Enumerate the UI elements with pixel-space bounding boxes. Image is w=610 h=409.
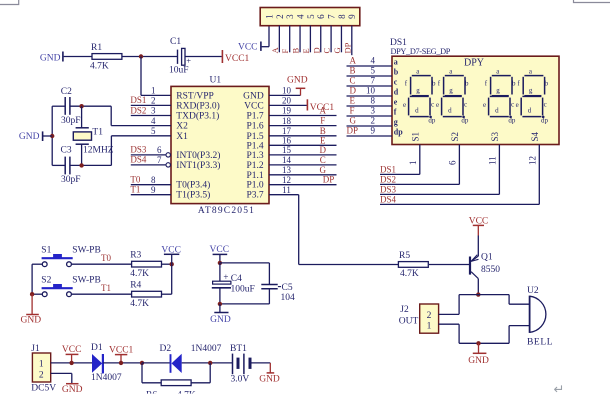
label R4 — [130, 281, 141, 291]
pin name T0(P3.4) (U1) — [176, 180, 210, 191]
value 10uF (C1) — [169, 66, 189, 76]
svg-text:2: 2 — [151, 96, 156, 106]
svg-text:P1.2: P1.2 — [247, 161, 264, 171]
wire J1 pin 1 to D1 — [51, 362, 92, 364]
svg-text:G: G — [320, 165, 327, 175]
pin number 5 (display b) — [371, 66, 376, 76]
svg-text:B: B — [291, 48, 301, 54]
pin number 4 (display a) — [371, 56, 376, 66]
value SW-PB (S1) — [72, 246, 101, 256]
pin number 12 (display S4) — [527, 156, 537, 165]
svg-text:1: 1 — [39, 359, 44, 369]
value 1N4007 (D1) — [91, 373, 122, 383]
wire rail to C3 — [52, 164, 65, 166]
resistor R4 — [132, 291, 162, 297]
svg-text:Q1: Q1 — [481, 253, 493, 263]
wire D2 to BT1 — [182, 362, 233, 364]
svg-text:GND: GND — [287, 76, 308, 86]
net label F (header pin 3) — [280, 49, 290, 54]
net label DS3 (U1 pin 6) — [130, 145, 147, 155]
pin name P1.5 (U1) — [247, 132, 264, 142]
wire display S4 down — [538, 145, 540, 205]
junction S2 rail — [30, 292, 34, 296]
junction GND tap — [50, 134, 54, 138]
svg-text:d: d — [495, 107, 499, 115]
svg-text:5: 5 — [371, 66, 376, 76]
svg-text:100uF: 100uF — [231, 285, 255, 295]
wire U1 to net F — [269, 125, 337, 127]
connector J2 — [400, 304, 438, 333]
svg-text:104: 104 — [281, 293, 296, 303]
svg-text:8: 8 — [371, 96, 376, 106]
svg-text:P1.6: P1.6 — [247, 122, 264, 132]
svg-text:c: c — [544, 100, 547, 108]
resistor R5 — [398, 262, 428, 268]
pin name S1 (inside display) — [410, 132, 420, 142]
svg-text:DS1: DS1 — [380, 165, 396, 175]
junction crystal bottom — [79, 163, 83, 167]
svg-text:8: 8 — [151, 175, 156, 185]
wire U1 pin 10 to GND — [269, 94, 301, 96]
wire DS3 to U1 pin 6 — [131, 154, 166, 156]
svg-text:AT89C2051: AT89C2051 — [198, 206, 255, 216]
svg-text:6: 6 — [157, 145, 162, 155]
svg-text:f: f — [394, 107, 397, 116]
pin name P1.3 (U1) — [247, 151, 264, 161]
svg-text:J2: J2 — [400, 305, 409, 315]
svg-text:F: F — [350, 106, 355, 116]
svg-text:b: b — [512, 80, 516, 88]
junction VCC1 — [119, 361, 123, 365]
net label T0 (U1 pin 8) — [130, 175, 140, 185]
wire U1 pin 20 to VCC1 — [269, 104, 307, 106]
svg-text:DS4: DS4 — [130, 155, 147, 165]
svg-text:2: 2 — [427, 311, 432, 321]
svg-text:b: b — [394, 67, 399, 76]
svg-text:SW-PB: SW-PB — [72, 276, 101, 286]
svg-text:4: 4 — [371, 56, 376, 66]
ground port GND (J1) — [62, 384, 83, 396]
ground port GND (U1 pin 10) — [287, 76, 308, 96]
wire display pin b — [347, 75, 393, 77]
pin number 18 (U1) — [282, 116, 292, 126]
power port VCC (header) — [238, 42, 261, 53]
pin name INT1(P3.3) (U1) — [176, 160, 220, 171]
resistor R6 (bypass) — [161, 380, 191, 386]
svg-text:18: 18 — [282, 116, 292, 126]
pin number 15 (U1) — [282, 145, 292, 155]
net label F (display) — [350, 106, 355, 116]
svg-text:20: 20 — [282, 96, 292, 106]
pin name S2 (inside display) — [450, 132, 460, 142]
svg-text:GND: GND — [21, 315, 42, 325]
net label DS4 (U1 pin 7) — [130, 155, 147, 165]
net label A (U1 side) — [320, 106, 327, 116]
svg-text:5: 5 — [151, 126, 156, 136]
svg-text:10: 10 — [366, 86, 376, 96]
wire to U1 pin 1 — [141, 94, 171, 96]
pin number 7 (U1) — [157, 155, 162, 165]
power port VCC (J1) — [62, 345, 82, 363]
ground port GND (C4) — [210, 304, 231, 325]
svg-text:TXD(P3.1): TXD(P3.1) — [176, 111, 219, 122]
wire bypass to R6 — [142, 382, 161, 384]
svg-text:OUT: OUT — [399, 317, 419, 327]
wire X2 bend — [110, 106, 112, 125]
svg-text:RXD(P3.0): RXD(P3.0) — [176, 100, 220, 111]
wire J1 pin 2 down — [71, 373, 73, 383]
svg-text:b: b — [465, 80, 469, 88]
wire to D2 — [142, 362, 170, 364]
wire R5 to Q1 base — [429, 264, 469, 266]
svg-text:7: 7 — [371, 76, 376, 86]
svg-text:7: 7 — [327, 14, 337, 19]
capacitor C1 — [178, 48, 192, 65]
pin number 14 (U1) — [282, 155, 292, 165]
svg-text:↵: ↵ — [554, 382, 565, 397]
wire X1 bend — [110, 136, 112, 166]
svg-text:P1.7: P1.7 — [247, 112, 264, 122]
svg-text:C: C — [320, 155, 326, 165]
svg-text:4.7K: 4.7K — [400, 269, 419, 279]
7-segment digit 2 — [440, 74, 467, 118]
label R1 — [91, 43, 102, 53]
svg-text:G: G — [332, 47, 342, 53]
svg-text:dp: dp — [428, 117, 436, 125]
svg-text:D: D — [350, 86, 357, 96]
pin name TXD(P3.1) (U1) — [176, 111, 219, 122]
svg-text:A: A — [320, 106, 327, 116]
ground port GND (switches) — [21, 294, 42, 325]
pin name b (inside display) — [394, 67, 399, 76]
junction VCC C4 — [218, 261, 222, 265]
svg-text:DPY_D7-SEG_DP: DPY_D7-SEG_DP — [391, 47, 451, 56]
display DS1 DPY_D7-SEG_DP — [390, 38, 559, 145]
wire C4 top to C5 — [220, 262, 270, 264]
pin number 6 (U1) — [157, 145, 162, 155]
junction at R1/C1 node — [139, 54, 143, 58]
net label T1 (U1 pin 9) — [130, 185, 140, 195]
net label A (display) — [350, 56, 357, 66]
wire T1 to U1 pin 9 — [131, 194, 171, 196]
value DC5V (J1) — [31, 383, 56, 393]
svg-text:c: c — [464, 100, 467, 108]
pin name P1.1 (U1) — [247, 171, 264, 181]
wire to bell bottom pin — [509, 325, 529, 327]
label T1 (crystal) — [92, 127, 103, 137]
value 100uF (C4) — [231, 285, 255, 295]
wire display pin e — [347, 105, 393, 107]
net label G (display) — [350, 116, 357, 126]
net label C (header pin 7) — [322, 48, 332, 54]
wire C4 bottom to C5 — [220, 303, 270, 305]
svg-text:T1: T1 — [92, 127, 103, 137]
net label DS2 (display) — [380, 175, 396, 185]
svg-text:C: C — [350, 76, 356, 86]
svg-text:S1: S1 — [41, 246, 51, 256]
svg-text:d: d — [448, 107, 452, 115]
svg-text:U1: U1 — [210, 75, 222, 85]
7-segment digit 4 — [520, 74, 547, 118]
svg-text:GND: GND — [468, 356, 489, 366]
pin number 13 (U1) — [282, 165, 292, 175]
svg-text:P1.1: P1.1 — [247, 171, 264, 181]
svg-text:2: 2 — [275, 14, 285, 19]
pin number 3 (U1) — [151, 106, 156, 116]
svg-text:3.0V: 3.0V — [231, 374, 250, 384]
svg-text:P1.3: P1.3 — [247, 151, 264, 161]
svg-text:A: A — [270, 47, 280, 54]
svg-text:g: g — [394, 117, 398, 126]
wire display pin c — [347, 85, 393, 87]
battery BT1 — [233, 354, 251, 375]
svg-text:F: F — [320, 116, 325, 126]
svg-text:d: d — [394, 87, 399, 96]
svg-text:DP: DP — [342, 42, 352, 53]
crystal T1 — [73, 106, 91, 165]
pin name a (inside display) — [394, 57, 398, 66]
junction crystal top — [79, 104, 83, 108]
wire header pin 4 stem — [299, 26, 301, 53]
inverted pin circle (U1 pin 6) — [166, 153, 170, 157]
value 4.7K (R6, clipped) — [138, 391, 218, 403]
svg-text:P1.5: P1.5 — [247, 132, 264, 142]
label S2 — [41, 276, 51, 286]
svg-text:T1: T1 — [101, 283, 111, 293]
wire header pin 8 stem — [340, 26, 342, 53]
svg-text:E: E — [301, 48, 311, 53]
svg-text:INT0(P3.2): INT0(P3.2) — [176, 150, 220, 161]
svg-text:1N4007: 1N4007 — [191, 344, 222, 354]
svg-text:12: 12 — [527, 156, 537, 165]
wire U1 to net G — [269, 174, 337, 176]
svg-text:P1.0: P1.0 — [247, 181, 264, 191]
wire C2 to X2 node — [70, 105, 111, 107]
svg-text:VCC: VCC — [210, 245, 230, 255]
pin number 11 (display S3) — [487, 156, 497, 165]
wire right down to bell pin 1 — [508, 295, 510, 305]
svg-text:1: 1 — [427, 322, 432, 332]
power port VCC1 (top) — [222, 50, 249, 64]
label S1 — [41, 246, 51, 256]
wire U1 to net A — [269, 115, 337, 117]
svg-text:X1: X1 — [176, 132, 188, 142]
pin number 9 (U1) — [151, 185, 156, 195]
net label E (header pin 5) — [301, 48, 311, 53]
svg-text:R3: R3 — [130, 251, 141, 261]
svg-text:DS2: DS2 — [380, 175, 396, 185]
wire S2 to R4 — [72, 293, 132, 295]
wire DS2 to U1 pin 3 — [131, 115, 171, 117]
net label B (display) — [350, 66, 356, 76]
svg-text:DS2: DS2 — [130, 105, 146, 115]
net label OUT (J2) — [399, 317, 419, 327]
wire S3 to DS3 — [380, 193, 499, 195]
pin name P1.0 (U1) — [247, 181, 264, 191]
wire U1 pin 11 — [269, 194, 299, 196]
svg-text:dp: dp — [461, 117, 469, 125]
pin number 19 (U1) — [282, 106, 292, 116]
svg-text:b: b — [432, 80, 436, 88]
pin name P1.2 (U1) — [247, 161, 264, 171]
wire header pin 7 stem — [330, 26, 332, 53]
pin name P3.7 (U1) — [247, 191, 264, 201]
net label C (display) — [350, 76, 356, 86]
pin name RXD(P3.0) (U1) — [176, 100, 220, 111]
wire pin 11 down — [298, 195, 300, 265]
label R5 — [399, 251, 410, 261]
svg-text:S4: S4 — [530, 131, 540, 141]
svg-text:DS3: DS3 — [380, 185, 397, 195]
svg-text:T1: T1 — [130, 185, 140, 195]
svg-text:T0: T0 — [101, 253, 111, 263]
svg-text:11: 11 — [282, 185, 291, 195]
pin number 17 (U1) — [282, 126, 292, 136]
pin number 6 (display S2) — [447, 160, 457, 165]
svg-text:19: 19 — [282, 106, 292, 116]
wire rail to C2 — [52, 105, 65, 107]
pin name T1(P3.5) (U1) — [176, 190, 210, 201]
pin name INT0(P3.2) (U1) — [176, 150, 220, 161]
net label F (U1 side) — [320, 116, 325, 126]
wire S1 to DS1 — [380, 173, 420, 175]
wire D1 to D2 node — [103, 362, 142, 364]
svg-text:G: G — [350, 116, 357, 126]
wire to U1 pin 4 X2 — [111, 125, 171, 127]
svg-text:e: e — [403, 101, 406, 109]
wire bell top — [459, 294, 509, 296]
net label DS3 (display) — [380, 185, 397, 195]
power port VCC1 (U1 pin 20) — [307, 99, 334, 113]
wire display pin dp — [347, 135, 393, 137]
wire rail to S2 — [32, 293, 42, 295]
svg-text:e: e — [516, 101, 519, 109]
wire display pin f — [347, 115, 393, 117]
wire to bell top pin — [509, 303, 529, 305]
svg-text:DS1: DS1 — [130, 95, 146, 105]
svg-text:S2: S2 — [450, 132, 460, 142]
svg-text:15: 15 — [282, 145, 292, 155]
svg-text:BELL: BELL — [527, 337, 553, 347]
svg-text:+: + — [223, 272, 228, 282]
wire display S1 down — [419, 145, 421, 175]
svg-text:X2: X2 — [176, 122, 188, 132]
label R3 — [130, 251, 141, 261]
net label D (U1 side) — [320, 145, 327, 155]
svg-text:4.7K: 4.7K — [130, 299, 149, 309]
pin number 1 (display S1) — [408, 161, 418, 166]
svg-text:C3: C3 — [61, 145, 72, 155]
label C3 — [61, 145, 72, 155]
svg-text:T0(P3.4): T0(P3.4) — [176, 180, 210, 191]
wire VCC to header pin 1 — [262, 46, 269, 48]
connector header (pins 1-9) — [260, 8, 360, 26]
svg-text:P3.7: P3.7 — [247, 191, 264, 201]
power port VCC (switches) — [161, 245, 181, 264]
svg-text:d: d — [415, 107, 419, 115]
svg-text:VCC: VCC — [161, 245, 181, 255]
wire display S3 down — [498, 145, 500, 195]
wire to U1 pin 5 X1 — [111, 135, 171, 137]
svg-text:9: 9 — [347, 14, 357, 19]
value 104 (C5) — [281, 293, 296, 303]
net label DS2 (U1 pin 3) — [130, 105, 146, 115]
svg-text:dp: dp — [541, 117, 549, 125]
pin number 1 (U1) — [151, 86, 156, 96]
svg-text:1: 1 — [264, 14, 274, 19]
wire crystal GND rail — [51, 106, 53, 165]
pin number 8 (U1) — [151, 175, 156, 185]
svg-text:DS4: DS4 — [380, 195, 397, 205]
7-segment digit 3 — [487, 74, 514, 118]
switch S1 SW-PB — [42, 254, 73, 267]
svg-text:SW-PB: SW-PB — [72, 246, 101, 256]
svg-text:P1.4: P1.4 — [247, 141, 264, 151]
wire display pin g — [347, 125, 393, 127]
wire header pin 3 stem — [289, 26, 291, 53]
connector J1 — [31, 344, 50, 382]
pin name P1.4 (U1) — [247, 141, 264, 151]
power port VCC (C4) — [210, 245, 230, 263]
label D1 — [91, 343, 103, 353]
svg-text:GND: GND — [40, 53, 61, 63]
wire R4 to VCC rail — [161, 293, 172, 295]
svg-text:dp: dp — [508, 117, 516, 125]
svg-text:DP: DP — [323, 175, 335, 185]
capacitor C5 — [261, 285, 281, 304]
pin number 10 (display d) — [366, 86, 376, 96]
pin number 16 (U1) — [282, 136, 292, 146]
svg-text:7: 7 — [157, 155, 162, 165]
wire R1 to C1 — [122, 56, 177, 58]
svg-text:3: 3 — [285, 14, 295, 19]
pin name GND (U1) — [243, 91, 264, 101]
value 4.7K (R4) — [130, 299, 149, 309]
pin name S4 (inside display) — [530, 131, 540, 141]
pin name P1.7 (U1) — [247, 112, 264, 122]
label C5 — [282, 283, 293, 293]
value 3.0V (BT1) — [231, 374, 250, 384]
pin number 2 (U1) — [151, 96, 156, 106]
svg-text:GND: GND — [19, 132, 40, 142]
svg-text:A: A — [350, 56, 357, 66]
pin number 5 (U1) — [151, 126, 156, 136]
svg-text:B: B — [320, 126, 326, 136]
wire header pin 2 stem — [278, 26, 280, 53]
svg-text:16: 16 — [282, 136, 292, 146]
buzzer U2 BELL — [530, 296, 546, 333]
svg-text:11: 11 — [487, 156, 497, 165]
net label DS1 (display) — [380, 165, 396, 175]
svg-text:VCC: VCC — [238, 43, 258, 53]
svg-text:VCC: VCC — [244, 101, 264, 111]
net label DP (display) — [347, 126, 359, 136]
wire display S2 down — [458, 145, 460, 185]
svg-text:E: E — [350, 96, 356, 106]
pin name c (inside display) — [394, 77, 398, 86]
wire left down to bell bottom — [458, 324, 460, 343]
wire R3 to VCC — [161, 263, 172, 265]
resistor R3 — [132, 261, 162, 267]
svg-text:GND: GND — [210, 315, 231, 325]
wire node down to U1 pin 1 — [140, 57, 142, 96]
svg-text:30pF: 30pF — [61, 175, 81, 185]
svg-text:F: F — [280, 49, 290, 54]
svg-text:4.7K: 4.7K — [130, 269, 149, 279]
svg-text:12: 12 — [282, 175, 291, 185]
svg-text:DPY: DPY — [464, 58, 484, 69]
svg-text:INT1(P3.3): INT1(P3.3) — [176, 160, 220, 171]
